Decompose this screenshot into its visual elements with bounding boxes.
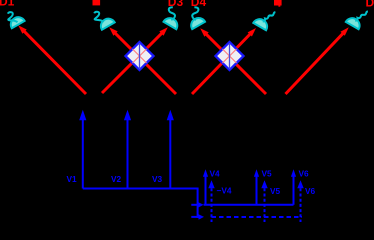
svg-text:V3: V3 — [152, 174, 163, 184]
photodetector D2 dome — [98, 16, 115, 30]
arrow V2 (phase voltage) — [124, 110, 131, 189]
beam splitter U2 — [216, 42, 244, 70]
svg-text:V1: V1 — [67, 174, 78, 184]
red beam through BS1 to detector D3 — [102, 27, 168, 93]
junction arrow into bus 2 — [191, 202, 203, 208]
svg-text:D3: D3 — [168, 0, 184, 9]
wire bus 3 (dashed) — [212, 216, 303, 218]
svg-text:−V4: −V4 — [217, 186, 232, 196]
wire of detector D5 — [263, 12, 276, 22]
arrow V5 — [254, 169, 259, 205]
red beam from BS2 to detector D4 — [200, 28, 266, 94]
red beam from BS1 to detector D2 — [109, 27, 176, 94]
arrow V1 (phase voltage) — [79, 110, 86, 189]
junction arrow into bus 3 — [191, 214, 204, 220]
wire of detector D6 — [355, 11, 368, 21]
photodetector D6 dome — [346, 15, 363, 29]
arrow V3 (phase voltage) — [167, 110, 174, 189]
svg-text:D1: D1 — [0, 0, 15, 8]
arrow V5 dashed — [261, 180, 267, 222]
beam splitter U1 — [126, 42, 154, 70]
photodetector D1 dome — [8, 14, 25, 28]
photodetector D4 dome — [188, 15, 205, 29]
wire bus 2 (solid) — [204, 204, 294, 206]
red beam to detector D6 — [286, 27, 349, 94]
svg-text:V6: V6 — [299, 169, 310, 179]
svg-text:V5: V5 — [270, 186, 281, 196]
svg-text:V2: V2 — [111, 174, 122, 184]
arrow V6 dashed — [297, 180, 303, 222]
red beam to detector D1 — [18, 25, 86, 94]
photodetector D3 dome — [163, 15, 180, 29]
red beam through BS2 to detector D5 — [192, 28, 256, 94]
svg-text:V4: V4 — [210, 169, 221, 179]
photodetector D5 dome — [253, 16, 270, 30]
wire bus 1 (V1-V3 common) — [83, 189, 198, 219]
arrow -V4 dashed — [208, 180, 214, 222]
svg-text:D6: D6 — [366, 0, 374, 10]
svg-text:V5: V5 — [262, 169, 273, 179]
svg-text:V6: V6 — [305, 186, 316, 196]
arrow V6 — [291, 169, 296, 205]
wire of detector D3 — [169, 7, 175, 20]
label D5 (cropped) — [274, 0, 282, 6]
wire of detector D2 — [94, 12, 104, 22]
svg-text:D4: D4 — [191, 0, 207, 9]
wire of detector D1 — [8, 12, 18, 22]
arrow V4 — [203, 169, 208, 205]
label D2 (cropped) — [93, 0, 101, 5]
wire of detector D4 — [192, 7, 198, 20]
